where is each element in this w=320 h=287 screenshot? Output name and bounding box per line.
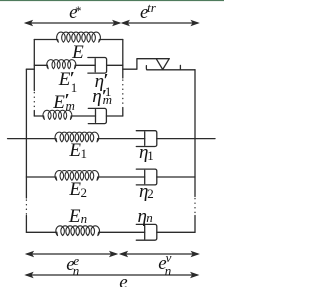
spring E'm bbox=[43, 110, 72, 119]
wire bbox=[71, 115, 95, 117]
label e-n-e bbox=[0, 0, 224, 1]
wire bbox=[157, 138, 195, 140]
dashpot eta1 cylinder bbox=[136, 131, 157, 147]
label eta-n bbox=[0, 0, 224, 1]
label E1 bbox=[0, 0, 224, 1]
wire bbox=[26, 231, 56, 233]
wire bbox=[106, 115, 122, 117]
label e bbox=[0, 0, 224, 1]
dashpot eta'm piston bbox=[95, 110, 97, 123]
wire bbox=[34, 39, 57, 41]
right outer rail bbox=[194, 70, 196, 233]
wire bbox=[99, 39, 122, 41]
wire bbox=[34, 115, 43, 117]
label E'1 bbox=[0, 0, 224, 1]
label eta2 bbox=[0, 0, 224, 1]
label E bbox=[0, 0, 224, 1]
inner left rail bbox=[33, 40, 35, 117]
label e-n-v bbox=[0, 0, 224, 1]
slider surface bbox=[146, 65, 195, 69]
input lead bbox=[8, 138, 27, 140]
wire bbox=[26, 176, 56, 178]
label eta'm bbox=[0, 0, 224, 1]
left outer rail bbox=[25, 69, 27, 232]
wire bbox=[98, 138, 145, 140]
wire bbox=[157, 231, 195, 233]
wire bbox=[26, 138, 56, 140]
label En bbox=[0, 0, 224, 1]
wire bbox=[157, 176, 195, 178]
label e* bbox=[0, 0, 224, 1]
spring E'1 bbox=[47, 60, 76, 69]
dashpot eta'1 cylinder bbox=[88, 58, 107, 74]
label e-tr bbox=[0, 0, 224, 1]
label E'm bbox=[0, 0, 224, 1]
slider shoe bbox=[156, 59, 169, 70]
dimension arrow e-n-v bbox=[120, 252, 199, 257]
output lead bbox=[195, 138, 215, 140]
dimension arrow e-tr bbox=[122, 21, 199, 26]
spring E bbox=[57, 32, 101, 42]
spring E2 bbox=[55, 171, 99, 181]
dashpot eta-n piston bbox=[144, 226, 146, 239]
dimension arrow e bbox=[26, 273, 199, 278]
label eta1 bbox=[0, 0, 224, 1]
dashpot eta'm cylinder bbox=[88, 108, 106, 123]
dashpot eta1 piston bbox=[144, 132, 146, 145]
wire bbox=[123, 59, 169, 69]
dimension arrow e-n-e bbox=[26, 252, 117, 257]
wire bbox=[98, 176, 145, 178]
dimension arrow e* bbox=[25, 21, 120, 26]
dashpot eta'1 piston bbox=[94, 59, 96, 72]
wire bbox=[34, 64, 47, 66]
inner right rail bbox=[122, 40, 124, 117]
dashpot eta2 piston bbox=[144, 170, 146, 183]
wire bbox=[26, 68, 34, 70]
label eta'1 bbox=[0, 0, 224, 1]
dashpot eta2 cylinder bbox=[136, 169, 157, 185]
dashpot eta-n cylinder bbox=[136, 224, 157, 240]
spring En bbox=[56, 226, 100, 236]
label E2 bbox=[0, 0, 224, 1]
spring E1 bbox=[55, 132, 99, 142]
wire bbox=[99, 231, 145, 233]
wire bbox=[107, 64, 123, 66]
page border top edge bbox=[0, 0, 224, 1]
wire bbox=[75, 64, 95, 66]
